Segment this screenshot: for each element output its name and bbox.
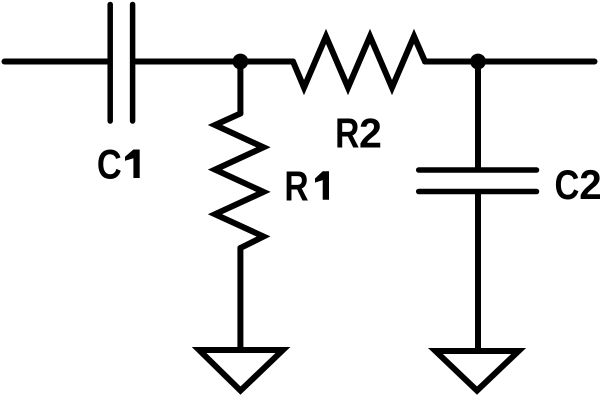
svg-text:2: 2 — [579, 161, 600, 208]
resistor R2 — [293, 36, 425, 87]
ground symbol under C2 — [436, 351, 519, 391]
wire node B down to C2 — [475, 62, 481, 168]
node B junction dot — [470, 54, 486, 70]
svg-text:C: C — [97, 141, 122, 188]
wire R2 to node B and output — [425, 59, 595, 65]
node A junction dot — [233, 54, 249, 70]
label C1 — [97, 141, 140, 188]
wire R1 to ground — [237, 248, 243, 350]
ground symbol under R1 — [199, 350, 283, 391]
capacitor C1 — [110, 5, 132, 122]
resistor R1 — [215, 114, 264, 249]
wire node A down to R1 — [237, 62, 243, 114]
svg-text:2: 2 — [359, 109, 382, 156]
svg-text:C: C — [554, 162, 579, 209]
svg-text:R: R — [335, 111, 359, 157]
label R1 — [284, 164, 329, 210]
label R2 — [335, 109, 382, 157]
label C2 — [554, 161, 600, 209]
wire left input to C1 — [5, 59, 108, 65]
wire C2 to ground — [475, 194, 481, 350]
svg-text:R: R — [284, 164, 308, 210]
wire C1 to node A and to R2 — [135, 59, 293, 65]
capacitor C2 — [419, 170, 537, 192]
